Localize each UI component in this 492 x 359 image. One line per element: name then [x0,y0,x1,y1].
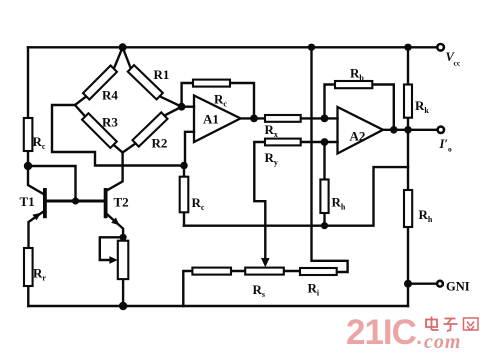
wire Rr bottom to bottom rail [27,286,29,306]
svg-text:R2: R2 [152,136,168,151]
pot Rs wiper arrowhead [261,258,270,267]
wire pot P1 wiper bracket [100,237,123,260]
resistor Rc body (left column) [24,118,33,151]
wire T1 emitter to Rr [29,212,44,249]
wire A2 output to Io terminal [383,129,438,131]
resistor Rk body [404,85,412,118]
wire A1 inverting input [182,105,194,107]
terminal GND [437,281,443,287]
junction node A [24,162,32,170]
junction base node [72,197,79,204]
transistor T2 base bar [104,188,108,218]
svg-text:21IC.: 21IC. [346,313,421,352]
resistor R5 body (below A1 + input) [180,177,189,213]
wire bottom rail up to pot chain [183,271,192,306]
resistor R2 body [132,112,167,146]
wire bridge arm R1 [123,47,182,106]
junction bridge top node [119,43,127,51]
svg-text:Rb: Rb [350,66,364,83]
wire Rc bottom to node A [27,151,29,166]
svg-text:Rs: Rs [253,282,266,299]
wire Rk column [407,47,409,130]
wire A1 feedback left side [182,83,193,107]
svg-text:R3: R3 [102,115,118,130]
junction GND node [404,280,412,288]
wire A1 output [241,117,266,119]
svg-text:R1: R1 [154,67,170,82]
wire Rb left side [325,85,336,119]
junction A1 output node [250,115,258,123]
watermark hanzi zi [444,319,458,332]
wire Rh2 column [407,130,409,306]
svg-text:GNI: GNI [446,280,470,294]
wire Vcc tap down to Ri right end [312,47,348,272]
svg-text:Rk: Rk [415,98,429,115]
transistor T2 emitter arrow [111,218,119,226]
resistor R4 body [83,66,117,100]
transistor T1 base bar [43,188,47,218]
wire feedback rail to A2 output column [184,167,408,226]
junction node B (A1 + input) [180,162,188,170]
wire top supply rail [28,46,437,48]
pot P1 wiper arrowhead [109,256,117,264]
svg-text:Rr: Rr [33,266,46,283]
resistor R3 body [82,113,117,148]
svg-text:T2: T2 [114,195,129,210]
terminal Vcc [437,44,444,51]
junction A2 inverting node [321,115,329,123]
resistor Rb body (A2 feedback) [335,81,372,88]
svg-text:Rc: Rc [214,92,227,109]
svg-text:Rc: Rc [33,134,46,151]
wire Rx to A2 inverting input [301,117,338,119]
wire T2 emitter down to pot [108,215,124,238]
svg-text:A2: A2 [350,129,366,144]
wire bottom ground rail [28,305,408,307]
svg-text:cc: cc [454,59,461,68]
wire between pot boxes [231,270,300,272]
resistor Rh1 body [320,180,328,214]
watermark hanzi wang [464,318,479,331]
wire Ry left end down to Rs wiper [254,142,265,259]
svg-text:Rx: Rx [265,122,278,139]
wire T2 collector to bridge bottom node [108,153,123,191]
op-amp A1 [194,96,241,143]
wire bridge left corner to A1 noninverting input rail [52,105,184,166]
svg-text:Rc: Rc [192,195,205,212]
junction Rh1 bottom node [321,222,328,229]
junction pot bottom rail node [119,302,127,310]
svg-text:Rh: Rh [332,195,346,212]
resistor pot chain left body [192,268,231,275]
wire T1 collector from node A [28,166,44,194]
wire bridge arm R2 [123,107,182,153]
wire R5 top from node B [183,166,185,177]
wire Rh1 bottom to feedback rail [323,213,325,226]
potentiometer Ri body [300,268,337,275]
potentiometer P1 body (below T2) [118,241,129,279]
svg-text:Rh: Rh [419,207,433,224]
wire pot P1 bottom to rail [122,279,124,306]
wire T1-T2 base line [47,200,105,203]
svg-text:Ry: Ry [265,150,278,167]
wire Ry right end to A2 noninverting input [301,141,338,143]
svg-text:R4: R4 [102,88,118,103]
transistor T1 emitter arrow [32,213,41,221]
junction Vcc tap node [308,44,315,51]
terminal Io [438,127,444,133]
svg-text:I′: I′ [439,137,448,151]
wire bridge arm R4 [75,47,123,105]
wire node A rail to bases [28,166,76,200]
wire left column from top rail down to Rc [27,47,29,118]
op-amp A2 [338,107,384,154]
svg-text:o: o [448,145,452,154]
wire R5 bottom [183,212,185,225]
wire GND node to terminal [408,283,437,285]
svg-text:Ri: Ri [308,281,320,298]
wire Rh1 top [323,142,325,180]
svg-text:T1: T1 [20,194,35,209]
resistor Rr body (T1 emitter) [24,248,33,286]
junction T2 emitter node [120,234,127,241]
resistor Rc2 feedback body (A1) [193,80,230,87]
watermark hanzi dian [426,317,439,331]
junction Rb output node [390,126,398,134]
resistor Rh2 body [404,190,412,227]
resistor R1 body [128,65,163,99]
resistor Ry body [265,139,301,146]
potentiometer Rs body [245,268,284,275]
wire A1 noninverting input [185,132,194,166]
junction bridge right node [178,103,186,111]
junction Rk top node [404,44,411,51]
wire A1 feedback right side [230,83,254,118]
junction Rk bottom node [404,126,412,134]
wire bridge arm R3 [75,105,123,153]
svg-text:A1: A1 [203,112,219,127]
wire Rb right side down to output [372,85,394,130]
svg-text:com: com [424,331,461,353]
resistor Rx body [265,115,301,122]
junction A2 noninverting node [321,138,329,146]
